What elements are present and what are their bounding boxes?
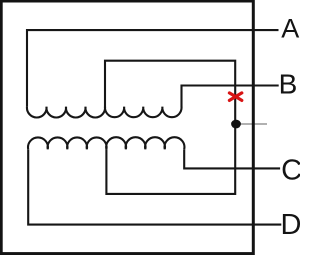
svg-text:D: D xyxy=(281,209,301,241)
junction dot node xyxy=(231,120,241,129)
wire bottom winding right end to terminal C xyxy=(184,149,280,168)
red X fault mark on bus xyxy=(229,93,241,101)
wire bottom winding left end to terminal D xyxy=(28,149,281,224)
svg-text:A: A xyxy=(281,14,299,44)
wire top winding right end to terminal B xyxy=(182,86,279,108)
svg-text:B: B xyxy=(279,69,298,100)
inductor L1 top winding (8 loops) xyxy=(27,107,182,118)
wire terminal A to top winding left end xyxy=(27,30,279,107)
svg-text:C: C xyxy=(281,155,300,187)
gray stub line right of junction dot xyxy=(241,123,268,125)
transformer case (outer box) xyxy=(1,1,253,254)
inductor L2 bottom winding (8 loops) xyxy=(28,137,184,149)
wire top winding tap to vertical bus down to bottom winding tap xyxy=(105,61,235,194)
